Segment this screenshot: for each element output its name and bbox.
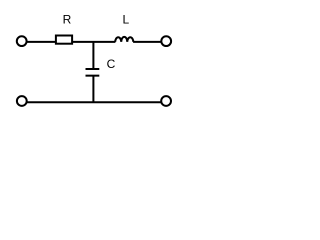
wire top-left (input to resistor) [27,41,57,43]
inductor L [115,12,133,42]
wire inductor to top-right terminal [133,41,161,43]
svg-text:R: R [63,12,72,26]
terminal bottom-right [161,96,171,106]
wire bottom rail [27,101,161,103]
svg-text:C: C [107,57,116,71]
resistor R [56,12,72,43]
capacitor C [86,57,116,76]
wire capacitor branch lower [92,76,94,103]
terminal top-right [161,36,171,46]
svg-text:L: L [122,12,129,26]
wire resistor to inductor (through node) [72,41,115,43]
terminal bottom-left [17,96,27,106]
wire capacitor branch upper [92,42,94,69]
terminal top-left [17,36,27,46]
